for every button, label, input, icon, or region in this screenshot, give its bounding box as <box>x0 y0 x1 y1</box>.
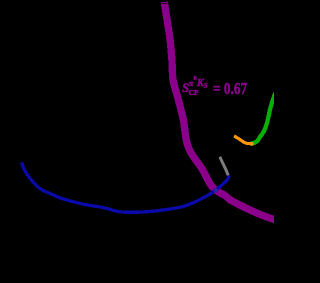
label: S_CP^{pi0 KS} = 0.67 <box>182 81 189 94</box>
blue/purple overlap block at crossing <box>214 188 218 192</box>
gray segment <box>220 157 228 176</box>
orange arc <box>234 136 254 144</box>
blue arc <box>22 162 230 212</box>
green arc <box>251 93 276 144</box>
dark tick mark crossing purple band near top <box>162 3 168 4</box>
purple band (S_CP constraint curve) <box>164 2 277 221</box>
